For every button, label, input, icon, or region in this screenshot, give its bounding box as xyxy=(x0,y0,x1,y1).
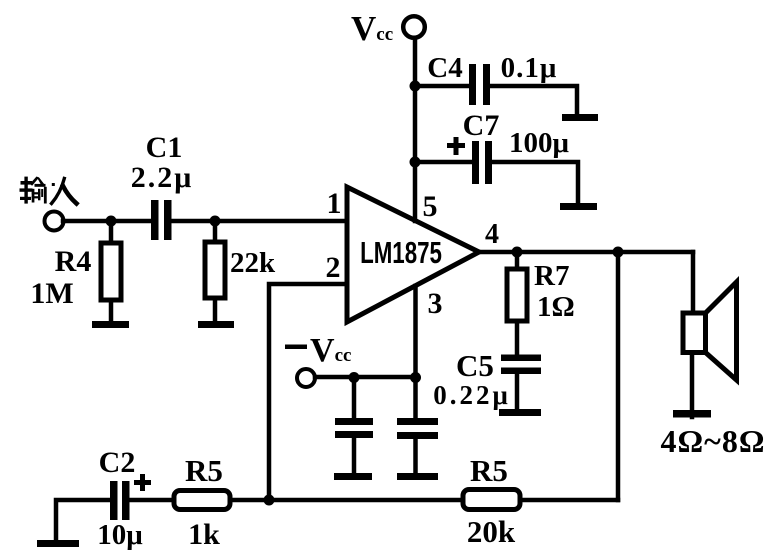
wire C1 to op-amp pin 1 xyxy=(171,219,347,224)
wire R7 to C5 xyxy=(515,321,520,357)
svg-text:2.2μ: 2.2μ xyxy=(131,161,194,194)
wire pin 3 down xyxy=(413,286,418,419)
node -VccA xyxy=(349,372,360,383)
wire R4 top lead xyxy=(109,221,114,243)
svg-text:C2: C2 xyxy=(99,446,136,479)
svg-text:R7: R7 xyxy=(534,260,569,292)
wire C4 to ground xyxy=(490,86,577,114)
svg-text:100μ: 100μ xyxy=(509,127,570,159)
wire to C7 xyxy=(415,160,473,165)
svg-text:R5: R5 xyxy=(470,453,508,488)
svg-text:1: 1 xyxy=(327,187,342,220)
C2 plus sign xyxy=(134,474,151,491)
svg-text:C7: C7 xyxy=(463,109,500,142)
terminal Vcc xyxy=(403,16,425,38)
node C1/22k junction xyxy=(210,216,221,227)
wire ground up to C2 xyxy=(56,500,110,540)
ground under C4 xyxy=(562,114,598,121)
wire pin 2 feedback xyxy=(269,284,347,500)
wire C2 to R5 xyxy=(129,498,174,503)
input terminal xyxy=(45,212,64,231)
svg-text:0.22μ: 0.22μ xyxy=(433,380,511,410)
svg-text:22k: 22k xyxy=(230,247,276,279)
capacitor C5 xyxy=(501,355,541,362)
wire speaker to ground xyxy=(690,353,695,418)
svg-text:LM1875: LM1875 xyxy=(360,235,442,269)
capacitor C7 xyxy=(472,141,479,184)
capacitor C4 xyxy=(469,64,476,105)
svg-text:1Ω: 1Ω xyxy=(537,291,575,323)
wire C5 to ground xyxy=(515,374,520,409)
label 输入 (input) xyxy=(20,177,47,204)
terminal -Vcc xyxy=(297,369,315,387)
wire op-amp output xyxy=(479,250,693,255)
svg-text:0.1μ: 0.1μ xyxy=(501,52,558,84)
capacitor C2 xyxy=(110,481,118,520)
svg-text:4: 4 xyxy=(485,219,499,250)
node output/R7 xyxy=(512,247,523,258)
svg-text:10μ: 10μ xyxy=(97,519,143,551)
ground bottom left xyxy=(37,540,79,547)
ground under R4 xyxy=(92,321,129,328)
C7 plus sign xyxy=(447,137,465,155)
svg-text:Vcc: Vcc xyxy=(310,332,351,369)
svg-text:5: 5 xyxy=(423,190,438,223)
svg-text:Vcc: Vcc xyxy=(351,9,393,48)
resistor R4 xyxy=(101,243,121,300)
wire 22k top lead xyxy=(213,221,218,242)
wire C7 to ground xyxy=(492,162,578,203)
svg-text:3: 3 xyxy=(428,287,443,320)
decoupling capacitor A xyxy=(352,377,357,419)
node Vcc/C7 junction xyxy=(410,157,421,168)
wire to C4 xyxy=(415,84,469,89)
svg-text:2: 2 xyxy=(326,251,341,284)
svg-text:C5: C5 xyxy=(456,348,494,383)
wire to speaker xyxy=(691,252,696,313)
resistor R5 (1k) xyxy=(174,491,230,510)
ground under speaker xyxy=(673,410,711,418)
wire 20k to feedback vertical xyxy=(520,498,618,503)
wire input to C1 xyxy=(63,219,151,224)
node input/R4 junction xyxy=(106,216,117,227)
node output/feedback xyxy=(613,247,624,258)
op-amp U1 LM1875 xyxy=(347,187,479,322)
svg-text:R5: R5 xyxy=(185,453,223,488)
node Vcc/C4 junction xyxy=(410,81,421,92)
label 入 (input char 2) xyxy=(52,179,65,204)
resistor R7 xyxy=(507,269,527,321)
wire 22k bottom lead xyxy=(213,298,218,321)
svg-text:20k: 20k xyxy=(467,514,516,549)
svg-text:C1: C1 xyxy=(146,131,183,164)
ground under 22k xyxy=(198,321,234,328)
node -VccB xyxy=(410,372,421,383)
svg-text:C4: C4 xyxy=(427,52,462,84)
ground under capacitor A xyxy=(334,473,372,480)
svg-text:1k: 1k xyxy=(188,518,220,551)
speaker xyxy=(683,313,706,353)
wire -Vcc to pin3 line xyxy=(315,375,416,380)
svg-text:4Ω~8Ω: 4Ω~8Ω xyxy=(661,423,766,459)
node feedback/bottom junction xyxy=(264,495,275,506)
wire R7 top lead xyxy=(515,252,520,269)
decoupling capacitor B xyxy=(397,418,438,425)
wire R4 bottom lead xyxy=(109,300,114,321)
resistor R5 (20k) xyxy=(463,490,520,510)
wire feedback right vertical xyxy=(616,252,621,500)
ground under C5 xyxy=(499,409,541,416)
resistor 22k xyxy=(205,242,225,298)
ground under capacitor B xyxy=(397,473,438,480)
capacitor C1 xyxy=(151,200,159,240)
wire R5 to R5(20k) xyxy=(230,498,463,503)
wire Vcc down to pin 5 xyxy=(413,38,418,221)
ground under C7 xyxy=(560,203,597,210)
svg-text:R4: R4 xyxy=(55,245,92,278)
svg-text:1M: 1M xyxy=(30,277,73,310)
